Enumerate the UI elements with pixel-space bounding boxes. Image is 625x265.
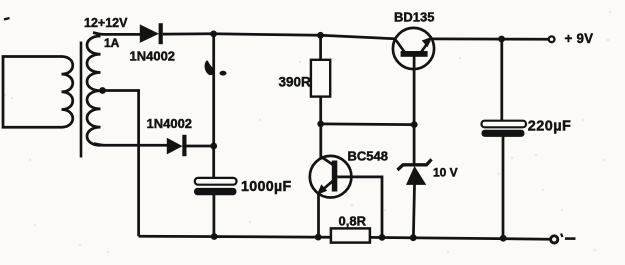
junction: C1 ground: [211, 233, 218, 240]
junction: C2 top: [498, 36, 505, 43]
capacitor C1 1000uF top plate: [195, 178, 237, 185]
resistor R1 390R: [311, 60, 330, 97]
junction node A (rectifier output): [210, 31, 217, 38]
wire: top rail BD135 emitter to +9V terminal: [432, 38, 548, 41]
junction node B (R1 / BC548 collector): [317, 121, 324, 128]
junction: C2 / rail: [500, 235, 507, 242]
wire: center tap to ground rail: [100, 91, 139, 237]
junction: BD135 base node: [411, 121, 418, 128]
wire: node A down to C1: [212, 34, 215, 179]
wire: R1 to node B: [319, 97, 322, 124]
ground rail left section: [139, 236, 332, 237]
capacitor C2 220uF top plate: [482, 121, 527, 128]
terminal 0/-: [551, 236, 558, 243]
transformer T1 secondary winding: [87, 36, 101, 145]
ground rail right section: [370, 237, 550, 239]
svg-text:BD135: BD135: [394, 10, 434, 25]
wire: BC548 base right and down to rail: [337, 177, 382, 237]
svg-text:1A: 1A: [104, 36, 120, 50]
svg-text:220µF: 220µF: [528, 118, 571, 134]
diode D2 1N4002 (bottom): [167, 135, 187, 156]
junction: D2 cathode node: [210, 143, 217, 150]
svg-text:12+12V: 12+12V: [84, 16, 128, 30]
transistor Q1 BD135: [393, 28, 434, 69]
wire: mains input loop (primary leads): [3, 57, 62, 128]
wire: secondary bottom lead to D2: [94, 144, 167, 146]
svg-text:+ 9V: + 9V: [565, 31, 594, 46]
terminal +9V: [549, 36, 555, 42]
svg-text:0,8R: 0,8R: [339, 214, 367, 229]
junction: zener / rail: [410, 234, 417, 241]
label minus: [561, 234, 563, 238]
zener diode D3 10V: [398, 125, 432, 238]
wire: BC548 emitter to ground rail: [317, 194, 320, 238]
wire: secondary top lead to D1: [93, 33, 140, 35]
wire: top rail D1 to BD135 collector: [163, 34, 395, 39]
svg-text:10 V: 10 V: [433, 166, 458, 180]
resistor R4 0,8R: [331, 228, 370, 242]
svg-text:1N4002: 1N4002: [130, 49, 176, 64]
capacitor C1 1000uF bottom plate: [194, 188, 237, 195]
svg-text:1000µF: 1000µF: [241, 179, 292, 195]
wire: node B down to BC548 collector: [319, 124, 322, 159]
diode D1 1N4002 (top): [140, 23, 163, 44]
svg-text:BC548: BC548: [348, 149, 388, 164]
junction: 390R top: [317, 32, 324, 39]
capacitor C2 220uF bottom plate: [482, 130, 525, 137]
svg-text:1N4002: 1N4002: [147, 116, 193, 131]
wire: C2 to ground rail: [502, 137, 505, 239]
scan mark top-left: [4, 18, 10, 20]
transformer core: [80, 42, 83, 158]
junction: center tap: [99, 87, 106, 94]
transistor Q2 BC548: [310, 156, 352, 198]
wire: top rail to R1: [319, 35, 322, 60]
wire: D2 to node: [187, 145, 214, 148]
wire: top rail to C2: [500, 39, 503, 121]
wire: BD135 base down to base node: [413, 57, 416, 125]
junction: BC548 base / rail: [379, 234, 386, 241]
scan smudge dot: [220, 71, 227, 76]
transformer T1 primary winding: [62, 57, 73, 128]
wire: C1 to ground rail: [213, 195, 216, 237]
junction: BC548 emitter / rail: [315, 234, 322, 241]
wire: node B to BD135 base node: [321, 123, 415, 126]
svg-text:390R: 390R: [279, 75, 312, 90]
scan smudge comma: [205, 61, 214, 76]
